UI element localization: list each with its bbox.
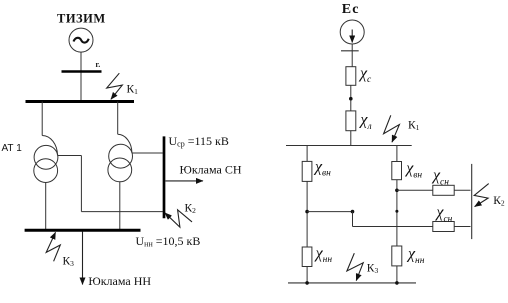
reactance xНН right: [392, 246, 402, 266]
fault K3 (lightning arrow to bottom rail): [347, 253, 363, 280]
wire right node to СН bar through xСН upper: [397, 189, 471, 191]
wire AT1 right LV to LV bus: [119, 182, 121, 230]
node ВН (top horizontal rail): [286, 145, 412, 147]
wire corner to СН bar through xСН lower: [353, 226, 471, 228]
wire generator to main bus: [80, 52, 82, 101]
junction node dot right branch lower: [395, 210, 398, 213]
wire left node to corner: [307, 211, 352, 213]
junction dot bottom right: [395, 281, 399, 285]
generator G (system source): [69, 28, 93, 52]
wire corner to MV bus: [81, 211, 162, 213]
reactance xC: [346, 67, 356, 86]
wire bus to AT1 left: [41, 102, 43, 136]
reactance xл: [346, 111, 356, 131]
wire source to xC: [351, 44, 353, 67]
svg-text:Юклама НН: Юклама НН: [88, 274, 151, 288]
source terminal tick: [341, 50, 359, 52]
autotransformer AT1 right series-winding arc: [118, 134, 132, 153]
wire top rail to xВН left: [306, 146, 308, 162]
node СН (right vertical bar): [471, 164, 473, 239]
wire corner down: [352, 212, 354, 227]
reactance xВН left: [302, 161, 312, 181]
wire xC to xл: [350, 85, 352, 111]
fault K1 (lightning arrow to HV bus): [107, 73, 123, 99]
wire AT1 left LV to LV bus: [45, 183, 47, 231]
svg-text:г.: г.: [96, 60, 101, 69]
wire xВН right down through nodes to xНН right: [396, 180, 398, 246]
load arrow Юклама СН: [165, 180, 203, 182]
junction corner dot: [351, 210, 355, 214]
reactance xСН upper: [433, 185, 454, 195]
reactance xНН left: [302, 247, 312, 267]
wire xВН left to xНН left: [306, 181, 308, 247]
node НН (bottom horizontal rail): [288, 282, 416, 284]
wire xНН right to bottom rail: [396, 266, 398, 283]
wire corner down: [80, 156, 82, 212]
fault K3 (lightning arrow to LV bus): [46, 232, 60, 261]
fault K2 (lightning arrow to СН bar): [474, 184, 489, 207]
svg-text:Юклама СН: Юклама СН: [180, 162, 242, 176]
source Ec (EMF circle with arrow): [340, 20, 364, 44]
wire AT1 right MV tap to MV bus: [132, 152, 163, 154]
reactance xСН lower: [433, 222, 454, 232]
autotransformer AT1 left series-winding arc: [42, 136, 57, 156]
fault K1 (lightning arrow to top rail): [384, 115, 400, 142]
wire AT1 left MV tap to corner: [58, 155, 82, 157]
wire xНН left to bottom rail: [306, 267, 308, 283]
bus НН (LV bus): [25, 229, 141, 232]
autotransformer AT1 left unit (two windings): [34, 145, 58, 169]
load arrow Юклама НН: [82, 232, 84, 285]
wire top rail to xВН right: [396, 146, 398, 162]
fault K2 (lightning arrow to MV bus): [165, 210, 192, 227]
junction node dot left branch: [305, 210, 309, 214]
bus ВН (main HV bus): [26, 100, 135, 103]
svg-text:Ес: Ес: [342, 2, 360, 17]
reactance xВН right: [392, 162, 402, 180]
svg-text:АТ 1: АТ 1: [2, 143, 23, 154]
junction node dot right branch upper: [395, 189, 399, 193]
svg-text:ТИЗИМ: ТИЗИМ: [57, 12, 106, 26]
bus г. (generator bus tick): [62, 70, 102, 73]
wire xл to top node: [350, 131, 352, 146]
autotransformer AT1 right unit (two windings): [109, 144, 133, 168]
wire bus to AT1 right: [117, 102, 119, 135]
junction dot bottom left: [305, 281, 309, 285]
bus СН (MV vertical bus): [163, 136, 166, 218]
junction node dot: [349, 97, 353, 101]
